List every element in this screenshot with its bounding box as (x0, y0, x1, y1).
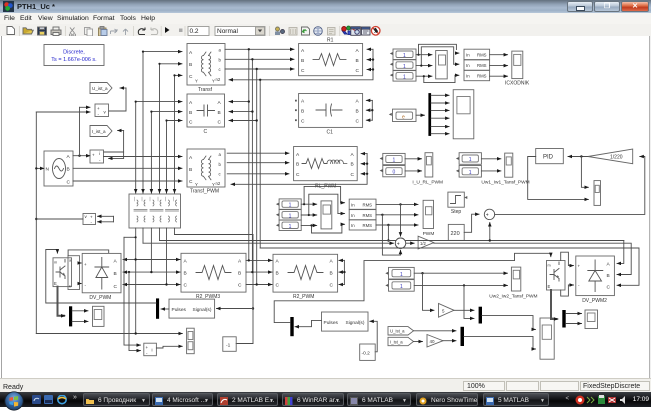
svg-text:A: A (301, 99, 305, 105)
mux40 (461, 327, 465, 346)
wire gain5 to mux5 (454, 309, 474, 311)
wire C.A input (136, 101, 182, 103)
svg-text:A: A (356, 48, 360, 54)
svg-text:In: In (351, 213, 355, 218)
RMS block 2 (464, 60, 490, 70)
display 2 (385, 280, 414, 292)
svg-text:B: B (276, 270, 279, 276)
wires R2_PWM3 to R2_PWM (246, 259, 272, 261)
svg-text:RMS: RMS (477, 74, 487, 79)
scope ICXODNIK (505, 51, 530, 86)
svg-text:n2: n2 (216, 181, 221, 186)
svg-text:Y: Y (195, 182, 198, 187)
from tag I_ist_a (388, 337, 414, 345)
svg-text:C: C (607, 285, 611, 291)
svg-text:a: a (219, 152, 222, 157)
wire 1/220 to PID (568, 156, 588, 158)
svg-text:1: 1 (403, 75, 406, 81)
gate loop wires Q1 (68, 250, 109, 256)
display 1b (Uw1 group) (456, 166, 482, 178)
constant 220 (448, 224, 464, 240)
wire C right port C to tap (229, 120, 257, 122)
svg-text:1/2: 1/2 (420, 241, 426, 246)
phase row B wire (123, 271, 151, 273)
wire display5 to selector2 (301, 214, 317, 216)
svg-text:In: In (351, 223, 355, 228)
wire I tag to gain40 (414, 341, 423, 343)
svg-text:m: m (54, 261, 57, 265)
svg-text:C: C (218, 120, 222, 126)
svg-text:B: B (296, 162, 299, 168)
gain K (PWM) (418, 236, 434, 249)
left window border (1, 36, 3, 378)
svg-text:B: B (330, 270, 333, 276)
svg-text:RMS: RMS (477, 63, 487, 68)
svg-text:1: 1 (469, 157, 472, 163)
wire into multiwinding top port 2 (142, 52, 144, 193)
svg-text:RMS: RMS (363, 223, 373, 228)
voltage measurement V1 (36, 104, 108, 117)
sum circle 2 redraw over buses (395, 238, 405, 251)
wire vertical tap phase a (248, 49, 250, 260)
svg-text:1: 1 (393, 158, 396, 164)
svg-text:i: i (99, 151, 100, 156)
svg-text:1: 1 (289, 213, 292, 219)
svg-text:v: v (85, 214, 88, 219)
svg-text:0: 0 (393, 170, 396, 176)
svg-text:b: b (219, 58, 222, 63)
wire RMS5 down loop into sum2 bottom (382, 215, 400, 255)
wire mux40 to scope4 (464, 336, 536, 349)
svg-text:m: m (548, 264, 551, 268)
wire Transf_PWM.b to RL.B (227, 162, 289, 164)
display e (389, 109, 416, 121)
wire into S1 plus (124, 237, 141, 345)
svg-text:A: A (114, 259, 118, 265)
wire RMS3 to ICXODNIK (490, 75, 508, 77)
scope PWM (423, 200, 435, 237)
bus wire y248 to DV_PWM2 C (260, 248, 639, 285)
resistor block R2_PWM3 (181, 253, 246, 299)
sum circle (U regulation) (484, 209, 494, 222)
svg-text:In: In (466, 63, 470, 68)
wire from multiwinding bottom port 5 (166, 228, 168, 285)
wire demux out 6 (431, 133, 449, 135)
wire display e to demux (416, 114, 425, 116)
svg-text:v: v (104, 110, 107, 115)
wire vertical tap neutral (259, 80, 261, 248)
gain K output bus to DV_PWM2 B (434, 243, 631, 274)
bus y240 down to DV_PWM2 A (617, 241, 624, 264)
PID controller (536, 149, 564, 164)
svg-text:Step: Step (451, 209, 462, 215)
wire Transf_PWM.a to RL.A (227, 152, 289, 154)
demux Q1 (69, 306, 72, 326)
wire RMS6 to PWM scope (376, 224, 418, 226)
svg-text:C: C (330, 283, 334, 289)
svg-text:A: A (189, 50, 193, 56)
svg-text:N: N (46, 167, 50, 173)
wire PID out loop to scope (528, 157, 589, 200)
diode rectifier DV_PWM (82, 253, 121, 301)
bus wire y243 to sum2 (143, 242, 394, 244)
wire demux Q1 out 1 (72, 310, 88, 312)
constant -0.2 (360, 344, 376, 360)
svg-text:-: - (578, 283, 580, 288)
svg-text:-: - (146, 351, 148, 356)
wire C right port B to tap (229, 111, 252, 113)
scope DV (93, 306, 105, 326)
right window border (649, 36, 651, 378)
svg-text:Discrete,: Discrete, (63, 50, 85, 56)
wire into multiwinding top port 4 (159, 64, 161, 193)
svg-text:B: B (238, 270, 241, 276)
sum circle 2 (PWM) (395, 238, 405, 251)
svg-text:c: c (219, 67, 222, 72)
wire demux out 2 (431, 102, 449, 104)
wire demux Q2 out 1 (566, 313, 582, 315)
svg-text:c: c (219, 172, 222, 177)
gain 1/220 (flipped) (588, 149, 633, 164)
svg-text:Pulses: Pulses (324, 320, 339, 326)
wire Transf.A input (143, 51, 182, 53)
goto tag I_ist_a (90, 126, 124, 159)
wire Transf.C input (175, 74, 183, 76)
gain 5 (439, 304, 455, 318)
svg-text:n2: n2 (216, 77, 221, 82)
svg-text:Y: Y (212, 182, 215, 187)
svg-text:A: A (276, 259, 280, 265)
bus wire y237 (124, 236, 136, 238)
capacitor block C (187, 94, 225, 135)
svg-text:Pulses: Pulses (172, 307, 187, 313)
svg-text:+: + (146, 345, 149, 350)
wire from multiwinding bottom port 2 (142, 228, 144, 243)
selector bypass loops (PWM group) (303, 186, 345, 233)
wire const -0.2 to pulses2 (370, 321, 377, 352)
signal selector block (top) (436, 51, 448, 79)
svg-text:C: C (351, 172, 355, 178)
scope DV2 (585, 310, 598, 329)
wire sum up input (489, 223, 491, 241)
svg-text:A: A (238, 259, 242, 265)
demux (big) (428, 93, 431, 136)
wire RMS2 to ICXODNIK (490, 65, 508, 67)
svg-text:B: B (356, 109, 359, 115)
svg-text:-: - (85, 283, 87, 288)
svg-text:A: A (189, 155, 193, 161)
svg-text:A: A (607, 261, 611, 267)
svg-text:C: C (189, 179, 193, 185)
capacitor block C1 (295, 94, 373, 136)
wire C.B input (151, 111, 182, 113)
wire DVPWM row to scope3 top (36, 333, 182, 335)
wire I1 to Transf_PWM A (104, 156, 183, 158)
wire demux out 5 (431, 126, 449, 128)
R2_PWM outputs tied (339, 260, 346, 284)
gate wire demux1 to Q1 (46, 250, 156, 304)
wire Transf.B input (160, 63, 183, 65)
svg-text:1: 1 (403, 53, 406, 59)
svg-text:DV_PWM2: DV_PWM2 (582, 298, 607, 304)
wire demux out 4 (431, 117, 449, 119)
svg-text:Transf_PWM: Transf_PWM (190, 189, 219, 195)
resistor block R1 (299, 38, 363, 76)
thick gate bus Q2 to demux (551, 290, 557, 319)
current measurement I1 (90, 150, 104, 163)
demux pulses2 (290, 317, 293, 336)
svg-text:Uw2_Iw2_Tansf_PWM: Uw2_Iw2_Tansf_PWM (489, 294, 537, 300)
wire demux Q1 out 2 (72, 320, 88, 322)
svg-text:1: 1 (400, 272, 403, 278)
svg-text:B: B (301, 109, 304, 115)
wire RMS1 to ICXODNIK (490, 54, 508, 56)
RMS5 (349, 210, 376, 220)
wire into multiwinding top port 3 (150, 112, 152, 193)
svg-text:1/220: 1/220 (610, 155, 623, 161)
wire Transf.a to R1.A (225, 48, 294, 50)
sum block S1 (144, 343, 157, 356)
resistor block R2_PWM (273, 254, 338, 299)
wire vertical tap phase b (251, 59, 253, 272)
svg-text:B: B (607, 273, 610, 279)
display group PWM: displays (276, 199, 301, 209)
svg-text:E: E (548, 284, 551, 289)
RMS block 3 (464, 70, 490, 80)
diode block D1 (68, 256, 80, 290)
svg-text:C: C (296, 172, 300, 178)
wire source B to Transf_PWM B (73, 167, 182, 169)
wire RMS4 down into sum2 (400, 204, 402, 236)
svg-text:Signal(s): Signal(s) (346, 320, 365, 326)
wire RMS4 to PWM scope (376, 203, 418, 205)
svg-text:Uw1_Iw1_Tansf_PWM: Uw1_Iw1_Tansf_PWM (481, 179, 529, 185)
wire demux out 1 (431, 94, 449, 96)
svg-text:Signal(s): Signal(s) (193, 307, 212, 313)
svg-text:RMS: RMS (363, 202, 373, 207)
IGBT transistor Q1 (53, 258, 72, 287)
wire D1 to DV_PWM plus (80, 262, 82, 264)
wire C right port A to tap (229, 101, 249, 103)
svg-text:B: B (189, 110, 192, 116)
wire Transf.b to R1.B (225, 58, 294, 60)
svg-text:B: B (114, 271, 117, 277)
wire display7 to scope Uw2 (414, 272, 507, 274)
pulse generator 1 (169, 299, 215, 318)
wire demux Q2 out 2 (566, 323, 582, 325)
display 3 (390, 71, 416, 82)
scope I_U_RL_PWM (412, 153, 443, 186)
svg-text:C: C (204, 129, 208, 135)
svg-text:C: C (67, 180, 71, 186)
display group U I R1: display 1 (390, 49, 416, 60)
svg-text:-1: -1 (226, 343, 231, 349)
vertical x253 to pulse gen 1 (252, 235, 254, 344)
svg-text:C: C (189, 120, 193, 126)
display 1 (Uw1 group) (456, 153, 482, 165)
svg-text:A: A (330, 259, 334, 265)
wire into multiwinding top port 5 (166, 121, 168, 194)
svg-text:B: B (189, 62, 192, 68)
svg-text:i: i (152, 348, 153, 353)
svg-text:Y: Y (195, 79, 198, 84)
svg-text:B: B (301, 58, 304, 64)
gate wire demux2 to Q2 (274, 253, 551, 322)
gate loop wires Q2 (561, 252, 574, 265)
svg-text:B: B (184, 270, 187, 276)
svg-text:U_ist_a: U_ist_a (92, 86, 108, 91)
svg-text:1: 1 (400, 284, 403, 290)
svg-text:B: B (356, 58, 359, 64)
display 0 (RL group) (380, 166, 405, 177)
svg-text:C: C (184, 283, 188, 289)
svg-text:1: 1 (469, 170, 472, 176)
from tag U_ist_a (388, 327, 414, 335)
phase row C wire (123, 284, 167, 286)
svg-text:R1: R1 (327, 38, 334, 44)
svg-text:A: A (356, 99, 360, 105)
wire pulses1 to demux (161, 308, 169, 310)
svg-text:1: 1 (289, 203, 292, 209)
step block (448, 192, 467, 215)
svg-text:C: C (238, 283, 242, 289)
wire S1 to scope3 (156, 346, 182, 348)
wire C.C input (167, 120, 183, 122)
wire from multiwinding bottom port 6 (174, 228, 176, 235)
svg-text:40: 40 (430, 339, 436, 344)
svg-text:PID: PID (543, 155, 554, 161)
bus wire y240 (160, 240, 624, 242)
transformer Transf (187, 44, 225, 94)
pulse generator 2 (322, 312, 369, 331)
wire gain40 to mux40 (443, 340, 456, 342)
svg-text:I_U_RL_PWM: I_U_RL_PWM (412, 180, 443, 186)
svg-text:A: A (296, 152, 300, 158)
wire U tag to mux40 (414, 330, 457, 332)
display 2 (390, 60, 416, 71)
wire Transf_PWM.c to RL.C (227, 173, 289, 175)
phase row A wire (123, 259, 136, 261)
wire pulses2 to demux2 (295, 320, 322, 326)
svg-text:I_ist_a: I_ist_a (390, 339, 403, 344)
wire vertical tap phase c (256, 69, 258, 285)
svg-text:A: A (351, 152, 355, 158)
transformer Transf_PWM (187, 149, 225, 195)
svg-text:C: C (356, 119, 360, 125)
svg-text:I_ist_a: I_ist_a (92, 129, 106, 134)
svg-text:C: C (356, 68, 360, 74)
svg-text:+: + (84, 262, 87, 267)
wire source C to Transf_PWM C (73, 180, 182, 182)
inductor block RL_PWM (294, 147, 358, 190)
wire into multiwinding top port 1 (135, 102, 137, 193)
wire sum output right and up to 1/220 (495, 157, 645, 215)
wire R1 outputs tied (229, 49, 374, 80)
svg-text:RMS: RMS (477, 53, 487, 58)
wire 220 to sum circle (464, 214, 479, 232)
svg-text:C: C (301, 68, 305, 74)
wire display1 to selector (416, 54, 432, 56)
svg-text:A: A (67, 154, 71, 160)
svg-text:5: 5 (442, 309, 445, 314)
svg-text:In: In (466, 53, 470, 58)
svg-text:E: E (54, 281, 57, 286)
diode rectifier DV_PWM2 (576, 256, 615, 304)
svg-text:-: - (99, 158, 101, 163)
powergui block (44, 45, 104, 66)
svg-text:+: + (578, 264, 581, 269)
selector bypass loops (top group) (417, 44, 460, 82)
display pair Uw2: display 1 (385, 267, 414, 279)
scope Uw1_Iw1_Tansf_PWM (481, 153, 529, 185)
svg-text:1: 1 (289, 224, 292, 230)
wire RL outputs tied, n2 return (231, 154, 368, 185)
wire from multiwinding bottom port 1 (135, 228, 137, 334)
demux Q2 (562, 310, 565, 328)
svg-text:In: In (466, 74, 470, 79)
wire from multiwinding bottom port 3 (150, 228, 152, 272)
wire mux5 to scope4 (482, 316, 536, 330)
svg-text:R2_PWM: R2_PWM (293, 294, 314, 300)
wire display to gain5 (423, 273, 435, 310)
svg-text:220: 220 (451, 231, 460, 237)
scope PID (594, 181, 601, 206)
goto tag U_ist_a (90, 83, 126, 112)
svg-text:Ts = 1.667e-006 s.: Ts = 1.667e-006 s. (51, 57, 97, 63)
three-phase source (36, 151, 73, 186)
svg-text:B: B (189, 167, 192, 173)
svg-text:U_ist_a: U_ist_a (390, 329, 405, 334)
wire into S1 minus (129, 272, 141, 351)
svg-text:e: e (402, 114, 405, 120)
svg-text:-0.2: -0.2 (362, 351, 371, 357)
svg-text:ICXODNIK: ICXODNIK (505, 81, 530, 87)
constant -1 (223, 337, 236, 352)
voltage measurement V2 (36, 214, 113, 226)
svg-text:+: + (90, 215, 93, 220)
IGBT transistor Q2 (547, 261, 566, 291)
demux pulses1 (156, 298, 159, 318)
wire demux out 3 (431, 109, 449, 111)
wire junction down to scope PID1 (581, 157, 588, 188)
scope Uw2_Iw2_Tansf_PWM (489, 267, 537, 300)
wire D1 to DV_PWM minus (80, 283, 82, 285)
svg-text:RMS: RMS (363, 213, 373, 218)
bus wire y234 (175, 234, 254, 236)
wire Transf.c to R1.C (225, 68, 294, 70)
svg-text:C: C (301, 119, 305, 125)
svg-text:DV_PWM: DV_PWM (89, 295, 111, 301)
svg-text:C: C (114, 284, 118, 290)
scope3 (two channel) (187, 328, 195, 354)
wire display3 to selector (416, 75, 432, 77)
RMS6 (349, 220, 376, 230)
svg-text:Y: Y (212, 79, 215, 84)
wire display6 to selector2 (301, 224, 317, 226)
scope4 (two channel tall) (540, 318, 554, 359)
wire vertical left rail (35, 112, 37, 334)
wire RMS5 to PWM scope (376, 214, 418, 216)
svg-text:A: A (218, 100, 222, 106)
multiwinding inductance block (129, 194, 181, 228)
RMS In block row 2: RMS4 (349, 199, 376, 209)
signal selector block (PWM group) (321, 201, 332, 229)
svg-text:A: A (184, 259, 188, 265)
svg-text:Transf: Transf (198, 87, 213, 93)
svg-text:b: b (219, 162, 222, 167)
svg-text:0.2: 0.2 (190, 28, 199, 35)
svg-text:a: a (219, 48, 222, 53)
